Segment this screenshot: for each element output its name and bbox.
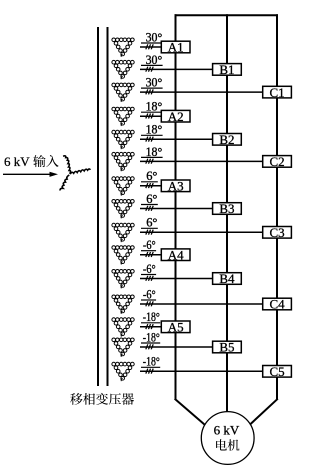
winding B2 secondary (delta) [112,130,134,149]
power cell B5 [213,341,242,353]
svg-text:-6°: -6° [143,262,156,276]
winding C3 secondary (delta) [112,223,134,242]
three-phase slash marks on A2 wire [146,114,148,119]
transformer core bar 2 [107,27,109,386]
three-phase slash marks on B4 wire [146,276,148,281]
power cell B2 [213,134,242,146]
power cell B3 [213,203,242,215]
svg-text:-6°: -6° [143,287,156,301]
svg-text:B2: B2 [219,132,234,147]
three-phase slash marks on A4 wire [146,252,148,257]
winding B4 secondary (delta) [112,270,134,289]
wire winding to cell C2 [140,160,265,162]
wire phase C series bus [276,14,278,399]
winding C1 secondary (delta) [112,83,134,102]
transformer primary winding (wye) [63,156,70,174]
winding B3 secondary (delta) [112,200,134,219]
wire winding to cell A1 [140,46,163,48]
three-phase slash marks on A1 wire [146,44,148,49]
wire winding to cell A4 [140,254,163,256]
winding C4 secondary (delta) [112,295,134,314]
wire winding to cell C4 [140,303,265,305]
wire winding to cell B4 [140,278,215,280]
wire winding to cell A5 [140,326,163,328]
svg-text:6 kV: 6 kV [214,422,240,437]
power cell B4 [213,273,242,285]
svg-text:A3: A3 [168,179,184,194]
winding C2 secondary (delta) [112,152,134,171]
svg-text:18°: 18° [146,100,163,114]
svg-text:B4: B4 [219,271,235,286]
wire phase B series bus [226,14,228,414]
wire phase C lead to motor [243,399,278,431]
wire input arrow [3,173,51,175]
three-phase slash marks on C5 wire [146,369,148,374]
wire winding to cell A3 [140,185,163,187]
power cell C5 [263,366,292,378]
three-phase slash marks on B1 wire [146,67,148,72]
svg-text:C2: C2 [270,154,285,169]
svg-text:6°: 6° [146,216,157,230]
wire top bus connecting phase stacks [175,14,279,16]
three-phase slash marks on C2 wire [146,159,148,164]
label phase-shifting transformer [70,393,83,405]
transformer core bar 1 [97,27,99,386]
svg-text:A2: A2 [168,109,184,124]
svg-text:A5: A5 [168,320,184,335]
power cell C2 [263,156,292,168]
winding A4 secondary (delta) [112,246,134,265]
wire winding to cell C5 [140,370,265,372]
svg-text:B3: B3 [219,201,234,216]
power cell B1 [213,64,242,76]
three-phase slash marks on C1 wire [146,89,148,94]
three-phase slash marks on A3 wire [146,183,148,188]
winding A2 secondary (delta) [112,107,134,126]
svg-text:C3: C3 [270,225,285,240]
power cell C1 [263,86,292,98]
svg-text:18°: 18° [146,123,163,137]
power cell A1 [161,41,190,53]
power cell C3 [263,227,292,239]
winding A3 secondary (delta) [112,177,134,196]
winding A1 secondary (delta) [112,38,134,57]
wire winding to cell B1 [140,68,215,70]
svg-text:C1: C1 [270,85,285,100]
three-phase slash marks on B3 wire [146,206,148,211]
svg-text:18°: 18° [146,145,163,159]
wire winding to cell A2 [140,115,163,117]
winding C5 secondary (delta) [112,362,134,381]
svg-text:-6°: -6° [143,238,156,252]
wire phase A series bus [175,14,177,399]
svg-text:30°: 30° [146,53,163,67]
power cell C4 [263,298,292,310]
svg-text:-18°: -18° [143,355,160,369]
svg-text:B5: B5 [219,340,234,355]
three-phase slash marks on B2 wire [146,137,148,142]
motor M 6 kV [201,412,254,465]
three-phase slash marks on B5 wire [146,344,148,349]
three-phase slash marks on C4 wire [146,301,148,306]
svg-text:6°: 6° [146,192,157,206]
wire winding to cell C1 [140,91,265,93]
svg-text:30°: 30° [146,30,163,44]
svg-text:A1: A1 [168,40,184,55]
three-phase slash marks on C3 wire [146,230,148,235]
three-phase slash marks on A5 wire [146,324,148,329]
svg-text:-18°: -18° [143,310,160,324]
svg-text:30°: 30° [146,76,163,90]
svg-text:6 kV: 6 kV [4,154,30,169]
svg-text:6°: 6° [146,169,157,183]
wire winding to cell B2 [140,138,215,140]
power cell A5 [161,321,190,333]
power cell A3 [161,180,190,192]
wire phase A lead to motor [175,399,212,431]
svg-text:-18°: -18° [143,330,160,344]
wire winding to cell B3 [140,208,215,210]
power cell A2 [161,110,190,122]
svg-text:A4: A4 [168,247,184,262]
svg-text:C4: C4 [270,297,286,312]
winding A5 secondary (delta) [112,318,134,337]
svg-text:B1: B1 [219,62,234,77]
power cell A4 [161,249,190,261]
svg-text:C5: C5 [270,364,285,379]
wire winding to cell C3 [140,231,265,233]
winding B1 secondary (delta) [112,60,134,79]
wire winding to cell B5 [140,346,215,348]
winding B5 secondary (delta) [112,338,134,357]
